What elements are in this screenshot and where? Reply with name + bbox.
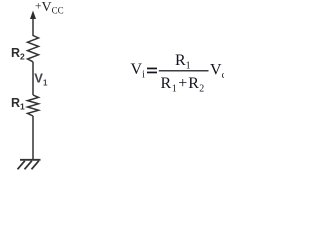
- power +Vcc arrow: [32, 16, 34, 36]
- svg-text:V1: V1: [34, 71, 48, 88]
- svg-text:R1+R2: R1+R2: [161, 75, 205, 95]
- resistor R1 zigzag: [28, 95, 39, 116]
- svg-text:R1: R1: [175, 52, 191, 72]
- resistor R2 zigzag: [28, 36, 39, 62]
- wire to ground: [32, 116, 34, 160]
- power +Vcc arrowhead: [30, 11, 36, 20]
- svg-text:Vi: Vi: [131, 61, 146, 81]
- svg-text:R2: R2: [11, 46, 25, 62]
- ground symbol: [18, 160, 41, 170]
- svg-text:R1: R1: [11, 96, 25, 112]
- equation fraction bar: [159, 70, 209, 72]
- svg-text:+VCC: +VCC: [35, 0, 64, 16]
- svg-text:Vc: Vc: [210, 62, 224, 82]
- equation equals sign: [147, 68, 157, 70]
- equation Vi = R1/(R1+R2)*Vcc: [131, 52, 227, 95]
- wire node V1 between resistors: [32, 62, 34, 95]
